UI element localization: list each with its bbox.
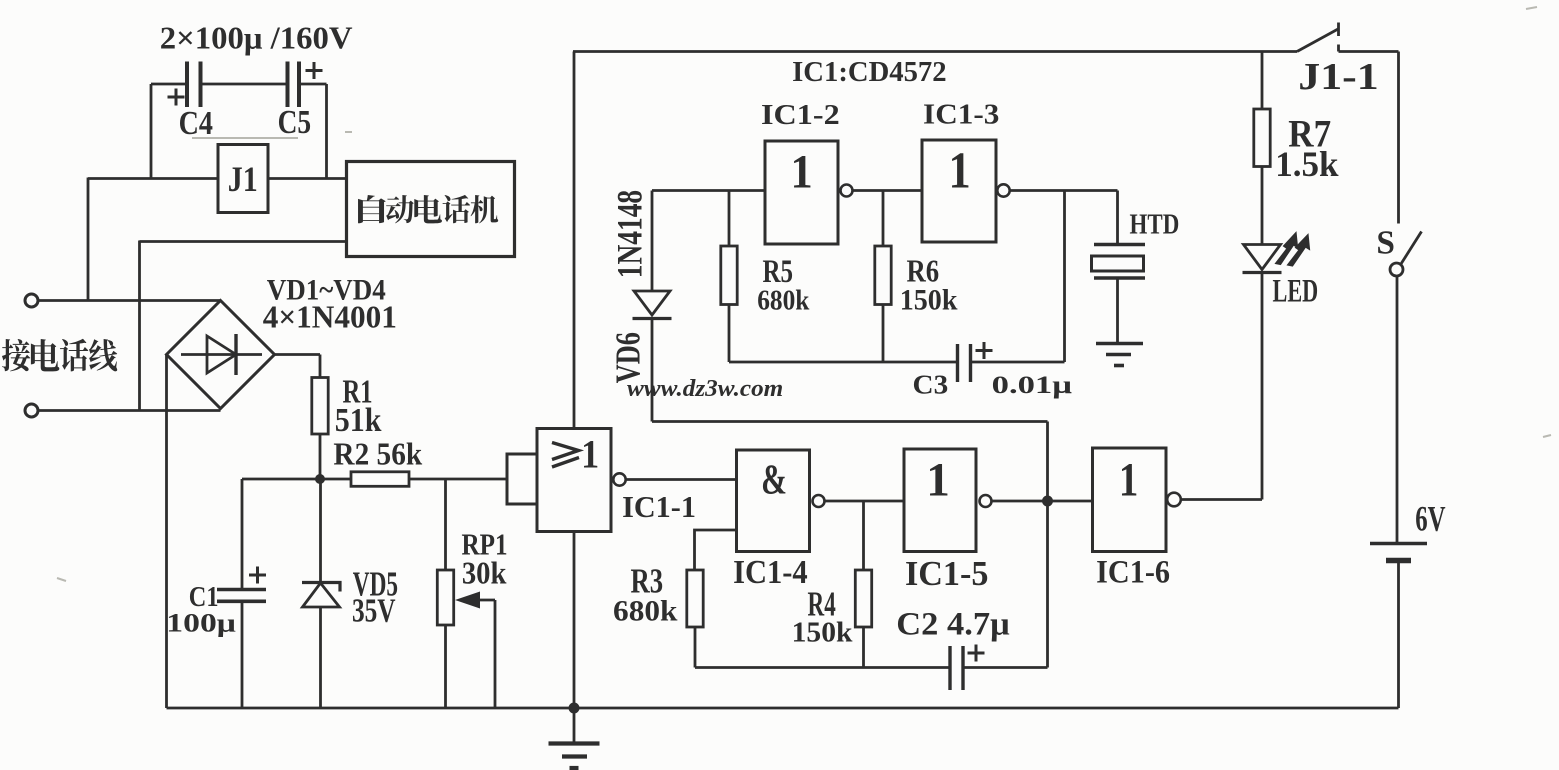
zener diode VD5 xyxy=(302,566,398,629)
wire xyxy=(1261,167,1264,245)
wire xyxy=(573,532,576,709)
resistor R2 xyxy=(333,437,422,487)
svg-text:J1: J1 xyxy=(228,159,258,199)
wire xyxy=(651,319,654,422)
svg-text:C2 4.7μ: C2 4.7μ xyxy=(896,606,1009,642)
wire xyxy=(1397,561,1400,709)
wire xyxy=(1339,50,1399,53)
buzzer HTD xyxy=(1092,208,1180,278)
wire xyxy=(299,83,327,86)
switch J1-1 xyxy=(1297,23,1379,98)
svg-text:IC1-1: IC1-1 xyxy=(622,490,696,524)
wire xyxy=(165,355,168,709)
wire xyxy=(150,84,153,179)
wire (IC1-4 second input from R3) xyxy=(695,530,737,570)
svg-text:IC1-3: IC1-3 xyxy=(923,99,999,130)
resistor R7 xyxy=(1254,109,1339,184)
wire xyxy=(1397,52,1400,224)
wire xyxy=(862,501,865,570)
svg-text:C1: C1 xyxy=(189,580,219,612)
terminal (phone line top) xyxy=(25,294,38,307)
svg-text:680k: 680k xyxy=(613,594,677,627)
svg-text:1.5k: 1.5k xyxy=(1275,143,1339,184)
wire xyxy=(87,178,90,301)
resistor R4 xyxy=(792,570,872,649)
switch S xyxy=(1376,225,1421,276)
svg-text:S: S xyxy=(1376,225,1395,262)
wire xyxy=(853,189,923,192)
gate IC1-1 (>=1) xyxy=(507,429,696,532)
wire xyxy=(140,240,347,243)
gate IC1-4 (&) xyxy=(733,450,824,590)
wire xyxy=(268,177,347,180)
wire xyxy=(1261,273,1264,500)
svg-text:1: 1 xyxy=(1119,454,1138,507)
wire xyxy=(241,602,244,709)
capacitor C3 xyxy=(913,342,1072,400)
svg-text:IC1-6: IC1-6 xyxy=(1096,554,1170,590)
wire xyxy=(1116,278,1119,344)
svg-text:HTD: HTD xyxy=(1130,208,1180,240)
wire xyxy=(325,84,328,179)
wire xyxy=(963,666,1048,669)
wire xyxy=(882,191,885,247)
wire xyxy=(728,191,731,247)
svg-text:1N4148: 1N4148 xyxy=(610,190,649,278)
svg-text:0.01μ: 0.01μ xyxy=(992,370,1072,399)
wire xyxy=(275,353,321,356)
wire xyxy=(825,500,905,503)
svg-text:1: 1 xyxy=(790,145,812,198)
capacitor C5 xyxy=(278,62,323,141)
wire xyxy=(573,52,576,429)
svg-text:IC1-5: IC1-5 xyxy=(905,555,989,593)
wire xyxy=(1046,422,1049,502)
wire xyxy=(728,305,731,363)
wire xyxy=(444,625,447,708)
wire xyxy=(1116,191,1119,245)
terminal (phone line bottom) xyxy=(25,404,38,417)
potentiometer RP1 xyxy=(437,528,507,625)
svg-text:35V: 35V xyxy=(352,594,396,630)
wire xyxy=(319,355,322,378)
battery 6V xyxy=(1370,498,1446,561)
wire xyxy=(151,83,187,86)
node (feedback junction) xyxy=(1042,496,1053,507)
svg-text:C4: C4 xyxy=(179,104,213,142)
diode VD6 1N4148 xyxy=(608,190,671,383)
wire xyxy=(494,600,497,708)
svg-text:C5: C5 xyxy=(278,103,312,140)
gate IC1-2 xyxy=(761,99,852,244)
label: connect phone line xyxy=(2,339,117,372)
svg-text:www.dz3w.com: www.dz3w.com xyxy=(627,375,783,401)
gate IC1-5 xyxy=(904,449,992,593)
node (R1/R2 junction) xyxy=(315,474,325,484)
watermark xyxy=(627,375,783,401)
wire xyxy=(167,707,1399,710)
svg-text:IC1-2: IC1-2 xyxy=(761,99,840,131)
wire xyxy=(573,50,1297,53)
wire xyxy=(444,479,447,570)
svg-text:6V: 6V xyxy=(1415,498,1446,539)
wire xyxy=(1181,498,1262,501)
resistor R1 xyxy=(312,374,382,439)
LED xyxy=(1243,233,1319,310)
svg-text:2×100μ /160V: 2×100μ /160V xyxy=(160,20,353,55)
wire xyxy=(1046,501,1049,668)
wire xyxy=(695,666,950,669)
svg-text:R2 56k: R2 56k xyxy=(333,437,422,472)
wire xyxy=(992,500,1093,503)
label 2x100u/160V xyxy=(160,20,353,55)
svg-text:150k: 150k xyxy=(792,617,854,648)
wire xyxy=(1010,189,1118,192)
wire xyxy=(1261,52,1264,110)
wire xyxy=(652,189,765,192)
wire xyxy=(319,608,322,709)
label IC1:CD4572 xyxy=(792,56,946,88)
wire xyxy=(241,479,244,591)
capacitor C1 xyxy=(166,567,266,638)
box: automatic telephone xyxy=(347,162,515,257)
svg-text:IC1-4: IC1-4 xyxy=(733,554,808,590)
resistor R6 xyxy=(875,246,958,317)
svg-text:680k: 680k xyxy=(757,284,809,316)
wire xyxy=(862,627,865,668)
wire xyxy=(319,479,322,582)
svg-text:150k: 150k xyxy=(900,284,958,317)
wire xyxy=(409,478,507,481)
svg-text:&: & xyxy=(761,457,787,504)
wire xyxy=(201,83,288,86)
capacitor C4 xyxy=(168,62,213,142)
wire xyxy=(651,191,654,292)
scan artifacts (decorative) xyxy=(57,7,1551,581)
svg-text:IC1:CD4572: IC1:CD4572 xyxy=(792,56,946,88)
svg-text:C3: C3 xyxy=(913,371,949,401)
svg-text:100μ: 100μ xyxy=(166,608,236,638)
wire xyxy=(242,478,351,481)
svg-text:1: 1 xyxy=(948,142,970,199)
svg-text:30k: 30k xyxy=(462,555,507,591)
wire xyxy=(1396,276,1399,544)
gate IC1-3 xyxy=(922,99,1010,242)
wire xyxy=(652,420,1048,423)
wire xyxy=(1063,191,1066,363)
wire xyxy=(319,434,322,479)
svg-text:4×1N4001: 4×1N4001 xyxy=(263,300,397,335)
wire xyxy=(694,627,697,668)
wire xyxy=(626,478,737,481)
bridge rectifier VD1~VD4 xyxy=(167,275,397,409)
svg-text:1: 1 xyxy=(926,454,950,506)
wire xyxy=(88,177,218,180)
wire xyxy=(38,409,221,412)
ground (main) xyxy=(549,708,600,768)
svg-text:LED: LED xyxy=(1273,273,1319,309)
wire xyxy=(729,361,958,364)
wire xyxy=(138,241,141,411)
ground (HTD) xyxy=(1096,344,1143,366)
svg-text:51k: 51k xyxy=(335,402,382,439)
wire xyxy=(971,361,1065,364)
resistor R3 xyxy=(613,561,703,627)
svg-text:J1-1: J1-1 xyxy=(1298,55,1378,97)
node (ground junction) xyxy=(569,703,580,714)
resistor R5 xyxy=(721,246,810,316)
capacitor C2 xyxy=(896,606,1009,690)
wire xyxy=(882,305,885,363)
gate IC1-6 xyxy=(1093,448,1181,590)
wire xyxy=(38,299,221,302)
svg-text:1: 1 xyxy=(581,433,599,477)
relay coil J1 xyxy=(218,145,268,213)
